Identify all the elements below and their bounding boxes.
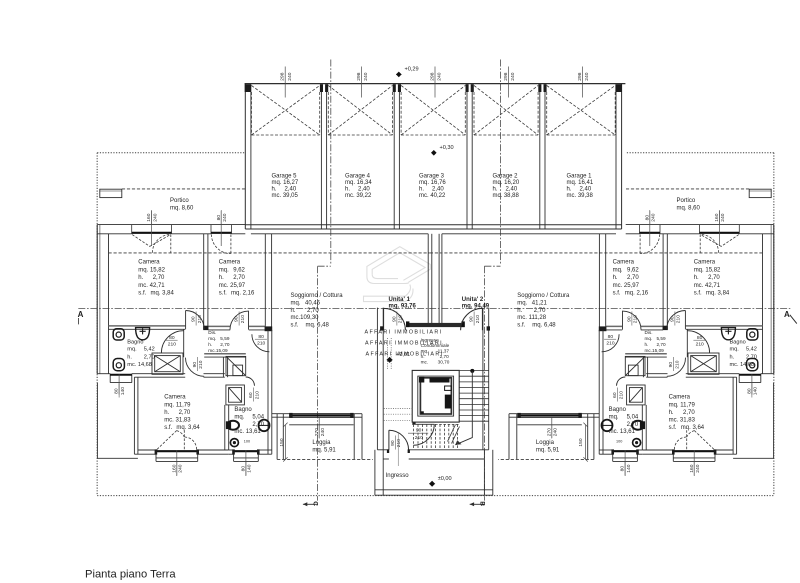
svg-text:240: 240: [437, 72, 443, 80]
svg-text:60: 60: [612, 392, 618, 398]
door dis->bagno1: [161, 331, 183, 353]
svg-text:210: 210: [257, 341, 265, 347]
svg-text:90: 90: [234, 316, 240, 322]
svg-text:Loggia: Loggia: [312, 440, 331, 446]
door camera->bagno2 small arc: [246, 377, 255, 386]
svg-text:h.: h.: [694, 275, 699, 281]
svg-text:mc.: mc.: [421, 360, 429, 365]
svg-text:mq. 11,79: mq. 11,79: [164, 402, 191, 408]
svg-text:210: 210: [676, 315, 682, 323]
loggia window dim line 270/240: [318, 417, 320, 438]
svg-text:Portico: Portico: [170, 198, 189, 204]
garage divider wall G5/G4: [320, 92, 322, 229]
svg-text:mc. 111,28: mc. 111,28: [517, 315, 546, 321]
svg-text:h.: h.: [138, 275, 143, 281]
upper flight dotted projection: [384, 338, 412, 420]
svg-text:mq. 8,60: mq. 8,60: [170, 205, 194, 211]
svg-text:240: 240: [363, 72, 369, 80]
garage block bottom wall: [245, 224, 621, 226]
svg-text:mc. 38,88: mc. 38,88: [493, 193, 520, 199]
stair bay west wall: [376, 308, 378, 450]
svg-text:298: 298: [503, 72, 509, 80]
svg-text:240: 240: [695, 464, 701, 472]
svg-text:210: 210: [633, 315, 639, 323]
svg-text:Loggia: Loggia: [536, 440, 555, 446]
window jamb ticks north wall: [131, 225, 133, 234]
door unita1 (leaf+arc): [384, 308, 483, 450]
svg-text:mq. 2,16: mq. 2,16: [231, 291, 255, 297]
svg-text:80: 80: [241, 466, 247, 472]
garage door dimension lines: [285, 67, 582, 98]
ingresso west wall: [374, 450, 376, 496]
svg-text:Dis.: Dis.: [645, 330, 653, 335]
svg-text:2,70: 2,70: [220, 342, 230, 347]
svg-text:210: 210: [254, 391, 260, 399]
svg-text:2,70: 2,70: [144, 354, 155, 360]
ingresso east wall: [483, 450, 485, 496]
svg-text:100: 100: [244, 440, 250, 444]
svg-text:2,70: 2,70: [233, 275, 245, 281]
svg-text:150: 150: [578, 438, 584, 446]
svg-text:210: 210: [696, 342, 704, 348]
property boundary dotted (left+top): [97, 153, 245, 496]
loggia depth dim line 150: [283, 417, 319, 461]
svg-text:mq.: mq.: [730, 347, 740, 353]
svg-text:B: B: [478, 501, 485, 506]
svg-text:mc. 42,71: mc. 42,71: [138, 283, 165, 289]
svg-text:Garage 5: Garage 5: [272, 173, 298, 179]
svg-text:mq.: mq.: [421, 349, 429, 354]
svg-text:2,70: 2,70: [252, 422, 264, 428]
svg-text:mq. 3,84: mq. 3,84: [151, 291, 175, 297]
watermark S logo: [364, 247, 431, 302]
svg-text:11,37: 11,37: [438, 349, 450, 354]
svg-text:h.: h.: [645, 342, 649, 347]
svg-text:90: 90: [192, 362, 198, 368]
svg-text:2,70: 2,70: [534, 308, 546, 314]
dash-dot unit axis right: [500, 60, 502, 265]
camera1 entry door dashed swing: [132, 234, 231, 253]
svg-text:s.f.: s.f.: [291, 323, 299, 329]
svg-text:2,40: 2,40: [358, 187, 370, 193]
level marker +-0,00: [429, 481, 435, 487]
stair hall bottom wall (ingresso north): [377, 449, 389, 451]
door camera2->dis: [248, 311, 250, 330]
svg-text:90: 90: [627, 316, 633, 322]
garage block right wall: [615, 92, 617, 229]
svg-text:2,70: 2,70: [627, 275, 639, 281]
svg-text:s.f.: s.f.: [219, 291, 227, 297]
loggia glazing outer lines: [289, 412, 353, 414]
camera1 south wall: [109, 325, 186, 327]
svg-text:h.: h.: [208, 342, 212, 347]
camera lower window dim line: [176, 451, 178, 477]
svg-text:90: 90: [668, 362, 674, 368]
svg-text:Condominiale: Condominiale: [421, 343, 450, 348]
svg-text:160: 160: [146, 213, 152, 221]
svg-text:210: 210: [415, 435, 423, 441]
svg-text:2,70: 2,70: [440, 354, 450, 359]
svg-text:90: 90: [392, 316, 398, 322]
svg-text:80: 80: [620, 466, 626, 472]
svg-text:5,59: 5,59: [220, 336, 230, 341]
svg-text:90: 90: [191, 316, 197, 322]
svg-text:90: 90: [416, 428, 422, 434]
svg-text:40,46: 40,46: [305, 300, 321, 306]
svg-text:80: 80: [216, 215, 222, 221]
svg-text:h.: h.: [669, 410, 674, 416]
svg-text:mc.15,09: mc.15,09: [208, 348, 228, 353]
svg-text:h.: h.: [219, 275, 224, 281]
elevator door mechanism: [430, 378, 450, 383]
svg-text:90: 90: [469, 316, 475, 322]
svg-text:298: 298: [430, 72, 436, 80]
svg-text:240: 240: [178, 464, 184, 472]
svg-text:mc. 31,83: mc. 31,83: [669, 418, 696, 424]
svg-text:240: 240: [320, 428, 326, 436]
garage divider wall G4/G3: [393, 92, 395, 229]
garage door jamb pillars: [245, 84, 622, 92]
portico floor edge / house north wall outer line: [97, 224, 245, 226]
svg-text:30,70: 30,70: [438, 360, 450, 365]
soggiorno south wall segments: [272, 413, 362, 459]
door unita2: [481, 308, 483, 330]
svg-text:2,40: 2,40: [506, 187, 518, 193]
portico pillar: [100, 189, 122, 197]
svg-text:+0,29: +0,29: [405, 67, 419, 73]
svg-text:Garage 1: Garage 1: [567, 173, 593, 179]
svg-text:mc. 14,68: mc. 14,68: [730, 362, 755, 368]
shower column upper square: [226, 356, 246, 405]
svg-text:mq. 16,41: mq. 16,41: [567, 180, 594, 186]
bagno2 window dim line: [245, 451, 247, 477]
svg-text:Garage 2: Garage 2: [493, 173, 519, 179]
svg-text:A: A: [784, 310, 790, 319]
stair break marks: [448, 425, 456, 442]
svg-text:h.: h.: [272, 187, 277, 193]
svg-text:mq.: mq.: [645, 336, 653, 341]
svg-text:mq. 6,48: mq. 6,48: [532, 323, 556, 329]
svg-text:AFFARI IMMOBILIARI: AFFARI IMMOBILIARI: [365, 329, 443, 335]
svg-text:h.: h.: [517, 308, 522, 314]
svg-text:h.: h.: [127, 354, 132, 360]
exterior step SW corner: [97, 383, 137, 459]
camera lower east wall: [224, 405, 226, 450]
svg-text:2,70: 2,70: [627, 422, 639, 428]
svg-text:80: 80: [114, 388, 120, 394]
elevator car: [420, 378, 451, 414]
bagno1 window dim line: [118, 374, 120, 394]
loggia west wall: [276, 414, 278, 460]
svg-text:C: C: [312, 501, 319, 506]
bagno1 shower: [152, 353, 183, 374]
svg-text:80: 80: [644, 215, 650, 221]
loggia east pier: [353, 414, 355, 460]
svg-text:2,40: 2,40: [580, 187, 592, 193]
svg-text:mc.109,30: mc.109,30: [291, 315, 320, 321]
svg-text:Garage 3: Garage 3: [419, 173, 445, 179]
camera lower west wall: [134, 377, 228, 461]
svg-text:298: 298: [577, 72, 583, 80]
svg-text:41,21: 41,21: [532, 300, 548, 306]
black cap camera1/camera2 wall base: [203, 326, 208, 330]
svg-text:mq.: mq.: [613, 267, 623, 273]
svg-text:270: 270: [546, 428, 552, 436]
svg-text:2,70: 2,70: [307, 308, 319, 314]
svg-text:210: 210: [618, 391, 624, 399]
svg-text:mq. 16,34: mq. 16,34: [345, 180, 372, 186]
svg-text:210: 210: [240, 315, 246, 323]
door dis->soggiorno: [252, 334, 270, 352]
stairs upper flight treads: [412, 370, 489, 424]
bagno1 window threshold: [110, 374, 132, 376]
svg-text:mq. 15,82: mq. 15,82: [138, 267, 165, 273]
svg-text:210: 210: [197, 315, 203, 323]
dash-dot unit axis left: [78, 60, 790, 501]
svg-text:mc.15,09: mc.15,09: [645, 348, 665, 353]
dim leader ingresso door: [397, 433, 399, 466]
shower column lower square (bagno2 shower): [226, 385, 245, 405]
svg-text:h.: h.: [730, 354, 735, 360]
lower flight dashed treads: [414, 424, 459, 449]
svg-text:5,04: 5,04: [627, 414, 639, 420]
svg-text:80: 80: [747, 388, 753, 394]
svg-text:mq.: mq.: [291, 300, 301, 306]
svg-text:mq. 15,82: mq. 15,82: [694, 267, 721, 273]
passage walls to lower camera: [222, 357, 224, 377]
svg-text:+0,01: +0,01: [396, 352, 410, 358]
svg-text:h.: h.: [164, 410, 169, 416]
loggia floor slab dashed edge: [277, 458, 373, 460]
svg-text:240: 240: [651, 213, 657, 221]
svg-text:140: 140: [626, 464, 632, 472]
camera2 entry door dashed swing: [211, 234, 230, 253]
elevator shaft outer: [412, 370, 459, 422]
svg-text:Camera: Camera: [138, 260, 160, 266]
svg-text:mq. 16,20: mq. 16,20: [493, 180, 520, 186]
svg-text:2,40: 2,40: [285, 187, 297, 193]
svg-text:Bagno: Bagno: [609, 407, 627, 413]
dashed floor-above edge: [109, 252, 430, 254]
svg-text:150: 150: [279, 438, 285, 446]
dis south wall: [204, 353, 246, 355]
svg-text:s.f.: s.f.: [613, 291, 621, 297]
svg-text:5,59: 5,59: [657, 336, 667, 341]
bagno2 bidet: [230, 439, 238, 447]
svg-text:5,04: 5,04: [252, 414, 264, 420]
door camera1->dis (leaf+arc): [161, 311, 269, 377]
svg-text:mc. 25,97: mc. 25,97: [613, 283, 640, 289]
window camera1 160/240 threshold: [132, 232, 172, 234]
door ingresso->stairs: [388, 430, 390, 450]
svg-text:240: 240: [553, 428, 559, 436]
bagno1 south wall with window 80/140: [97, 374, 225, 383]
svg-text:A: A: [78, 310, 84, 319]
wall camera1/camera2: [109, 234, 272, 377]
window dim line camera2: [220, 211, 222, 246]
svg-text:140: 140: [753, 387, 759, 395]
svg-text:210: 210: [198, 360, 204, 368]
bagno2 sink: [259, 420, 270, 432]
dis north wall segments: [208, 325, 230, 327]
black cap camera2/soggiorno wall base: [265, 326, 273, 331]
svg-text:mq. 5,91: mq. 5,91: [312, 448, 336, 454]
svg-text:mq. 11,79: mq. 11,79: [669, 402, 696, 408]
door dis/passage->camera lower: [186, 358, 205, 377]
level marker +0,01: [387, 357, 393, 363]
camera lower south wall + window 160/240: [138, 449, 156, 451]
svg-text:±0,00: ±0,00: [438, 476, 452, 482]
svg-text:240: 240: [287, 72, 293, 80]
window camera2 80/240 threshold: [211, 232, 232, 234]
svg-text:Soggiorno / Cottura: Soggiorno / Cottura: [517, 293, 570, 299]
svg-text:90: 90: [390, 440, 396, 446]
section marker B bottom: [470, 503, 485, 505]
svg-text:Dis.: Dis.: [208, 330, 216, 335]
svg-text:h.: h.: [345, 187, 350, 193]
svg-text:Bagno: Bagno: [730, 339, 746, 345]
svg-text:mc. 14,68: mc. 14,68: [127, 362, 152, 368]
svg-text:mq.: mq.: [127, 347, 137, 353]
svg-text:Camera: Camera: [669, 395, 691, 401]
svg-text:5,42: 5,42: [144, 347, 155, 353]
svg-text:90: 90: [670, 316, 676, 322]
svg-text:mc. 39,05: mc. 39,05: [272, 193, 299, 199]
house north face under garages: [251, 233, 428, 235]
svg-text:h.: h.: [493, 187, 498, 193]
svg-text:Soggiorno / Cottura: Soggiorno / Cottura: [291, 293, 344, 299]
svg-text:mq. 3,64: mq. 3,64: [681, 425, 705, 431]
bagno1 bidet: [113, 359, 124, 371]
svg-text:h.: h.: [421, 354, 425, 359]
svg-text:mq. 93,76: mq. 93,76: [389, 303, 417, 309]
svg-text:mc. 25,97: mc. 25,97: [219, 283, 246, 289]
svg-text:240: 240: [584, 72, 590, 80]
svg-text:2,70: 2,70: [708, 275, 720, 281]
svg-text:h.: h.: [613, 275, 618, 281]
svg-text:Pianta piano Terra: Pianta piano Terra: [85, 569, 176, 581]
svg-text:9,62: 9,62: [627, 267, 639, 273]
svg-text:mq.: mq.: [609, 414, 619, 420]
svg-text:210: 210: [396, 439, 402, 447]
camera lower balcony door dashed swing: [157, 430, 197, 449]
svg-text:mc. 42,71: mc. 42,71: [694, 283, 721, 289]
section marker C bottom: [303, 503, 318, 505]
stair bay east wall: [482, 308, 484, 450]
door stairs->flight arc: [413, 424, 434, 445]
svg-text:mq.: mq.: [208, 336, 216, 341]
svg-text:2,40: 2,40: [432, 187, 444, 193]
svg-text:240: 240: [720, 213, 726, 221]
svg-text:mq. 94,49: mq. 94,49: [462, 303, 490, 309]
bagno1 fixtures: toilet: [113, 328, 149, 371]
svg-text:2,70: 2,70: [746, 354, 757, 360]
svg-text:Unita' 2: Unita' 2: [462, 297, 484, 303]
svg-text:Bagno: Bagno: [127, 339, 143, 345]
ingresso south wall: [375, 489, 493, 491]
svg-text:+0,30: +0,30: [440, 145, 454, 151]
svg-text:5,42: 5,42: [746, 347, 757, 353]
bottom property dotted line: [97, 495, 774, 497]
svg-text:Unita' 1: Unita' 1: [389, 297, 411, 303]
svg-text:mq. 3,64: mq. 3,64: [176, 425, 200, 431]
svg-text:240: 240: [222, 213, 228, 221]
svg-text:mq.: mq.: [219, 267, 229, 273]
garage divider wall G3/G2: [466, 92, 468, 229]
svg-text:210: 210: [475, 315, 481, 323]
loggia roof slab edge: [289, 424, 353, 426]
svg-text:2,70: 2,70: [179, 410, 191, 416]
svg-text:mq. 8,60: mq. 8,60: [677, 205, 701, 211]
svg-text:mc. 39,22: mc. 39,22: [345, 193, 372, 199]
garage door X braces (dashed): [252, 86, 616, 136]
loggia sliding window glazing: [289, 414, 353, 416]
svg-text:s.f.: s.f.: [164, 425, 172, 431]
svg-text:Garage 4: Garage 4: [345, 173, 371, 179]
svg-text:2,70: 2,70: [683, 410, 695, 416]
central dividing wall between units: [428, 234, 442, 323]
svg-text:s.f.: s.f.: [138, 291, 146, 297]
svg-text:Ingresso: Ingresso: [421, 338, 439, 343]
bagno2 south wall + window 80/140: [229, 449, 234, 451]
bagno1 sink: [136, 328, 150, 340]
svg-text:240: 240: [510, 72, 516, 80]
svg-text:298: 298: [280, 72, 286, 80]
svg-text:270: 270: [314, 428, 320, 436]
garage block left wall: [244, 84, 246, 229]
bagno2 east wall: [225, 330, 272, 462]
house north wall inner face segments: [97, 233, 132, 235]
svg-text:Camera: Camera: [164, 395, 186, 401]
svg-text:Camera: Camera: [219, 260, 241, 266]
section line A: [78, 307, 790, 309]
svg-text:160: 160: [714, 213, 720, 221]
svg-text:160: 160: [689, 464, 695, 472]
svg-text:210: 210: [398, 315, 404, 323]
svg-text:9,62: 9,62: [233, 267, 245, 273]
svg-text:s.f.: s.f.: [517, 323, 525, 329]
svg-text:160: 160: [171, 464, 177, 472]
svg-text:mq. 16,27: mq. 16,27: [272, 180, 299, 186]
svg-text:mq.: mq.: [234, 414, 244, 420]
window dim line camera1: [151, 211, 153, 246]
bagno2 fixtures: toilet: [226, 420, 269, 447]
portico roof dashed edge: [122, 188, 245, 190]
svg-text:mq. 6,48: mq. 6,48: [306, 323, 330, 329]
svg-text:210: 210: [606, 341, 614, 347]
svg-text:210: 210: [168, 342, 176, 348]
svg-text:298: 298: [356, 72, 362, 80]
garage divider wall G2/G1: [539, 92, 541, 229]
svg-text:Portico: Portico: [677, 198, 696, 204]
bagno1 east wall: [183, 329, 185, 357]
svg-text:Ingresso: Ingresso: [386, 473, 410, 479]
svg-text:Camera: Camera: [613, 260, 635, 266]
svg-text:mq.: mq.: [517, 300, 527, 306]
svg-text:mc. 39,38: mc. 39,38: [567, 193, 594, 199]
svg-text:60: 60: [248, 392, 254, 398]
stair direction line with start dot: [470, 369, 474, 373]
svg-text:210: 210: [674, 360, 680, 368]
svg-text:240: 240: [152, 213, 158, 221]
svg-text:mc. 13,61: mc. 13,61: [609, 429, 636, 435]
svg-text:140: 140: [247, 464, 253, 472]
svg-text:2,70: 2,70: [657, 342, 667, 347]
svg-text:Bagno: Bagno: [234, 407, 252, 413]
svg-text:s.f.: s.f.: [669, 425, 677, 431]
svg-text:mc. 31,83: mc. 31,83: [164, 418, 191, 424]
svg-text:mq. 2,16: mq. 2,16: [625, 291, 649, 297]
